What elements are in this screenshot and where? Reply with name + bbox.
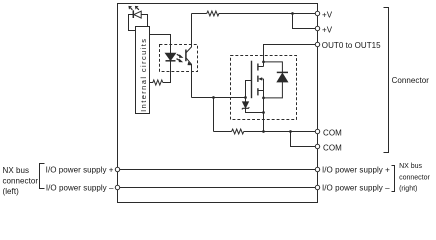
MOSFET body stub with arrow [261,78,264,80]
svg-text:NX bus: NX bus [3,166,30,175]
node source-TVS junction [262,97,265,100]
optocoupler light arrow 2 [177,59,180,61]
LED indicator loop wire [129,15,148,31]
wire internal circuits to optocoupler anode [150,35,171,54]
terminal COM 2 [315,144,319,148]
internal circuits box [136,27,150,114]
terminal IO+ left [115,167,119,171]
optocoupler LED cathode bar [166,60,176,62]
wire I/O power bus - [118,187,318,189]
LED indicator emission arrow 2 [137,8,139,10]
resistor R-com [232,129,244,134]
node COM junction 1 [262,130,265,133]
terminal OUT [315,42,319,46]
MOSFET channel segments [257,64,259,71]
svg-text:I/O power supply +: I/O power supply + [322,165,390,174]
resistor R-pullup [207,11,219,16]
svg-text:Internal circuits: Internal circuits [139,38,148,112]
MOSFET gate lead [246,81,252,98]
phototransistor emitter lead [186,58,192,98]
TVS diode D1 [277,71,288,73]
svg-text:(right): (right) [399,185,417,192]
wire emitter to gate node [192,97,246,99]
MOSFET source stub [258,90,264,92]
zener diode ZD [245,98,247,102]
svg-text:COM: COM [323,128,342,137]
LED indicator emission arrow 1 [131,8,133,10]
optocoupler LED triangle [166,53,176,60]
wire resistor to LED cathode [163,61,171,83]
wire drain to TVS cathode [264,62,283,73]
terminal IO- left [115,185,119,189]
phototransistor base bar [185,50,187,62]
wire zener anode to source rail [246,108,264,112]
bracket NX bus left [40,164,45,189]
node source-zener junction [262,111,265,114]
LED indicator diode triangle [134,11,141,18]
svg-text:connector: connector [3,176,39,185]
wire branch to COM2 [291,132,316,147]
svg-text:I/O power supply +: I/O power supply + [46,165,114,174]
wire source vertical [263,79,265,132]
svg-text:OUT0 to OUT15: OUT0 to OUT15 [322,41,381,50]
terminal IO+ right [315,167,319,171]
svg-text:NX bus: NX bus [399,163,422,170]
node emitter junction [212,96,215,99]
wire collector to +V [192,13,207,15]
svg-text:Connector: Connector [392,76,430,85]
wire COM rail to terminal [244,131,316,133]
wire I/O power bus + [118,169,318,171]
optocoupler dashed box [160,45,198,72]
resistor R-led (opto LED series) [150,80,163,85]
bracket NX bus right [392,166,395,192]
LED indicator cathode bar [132,10,134,18]
wire emitter drop to COM row [213,98,215,132]
terminal +V 2 [315,26,319,30]
wire TVS anode to source [264,82,283,98]
wire branch to +V2 [293,14,316,29]
wire drain stub [258,66,264,68]
phototransistor collector lead [186,14,192,53]
phototransistor emitter arrow [188,62,193,66]
optocoupler light arrow 1 [177,54,180,56]
svg-text:+V: +V [322,26,333,35]
COM rail [214,131,232,133]
svg-text:+V: +V [322,11,333,20]
MOSFET dashed box [231,56,297,120]
node gate-zener junction [244,96,247,99]
svg-text:connector: connector [399,174,430,181]
svg-text:I/O power supply –: I/O power supply – [46,183,114,192]
terminal +V 1 [315,11,319,15]
svg-text:I/O power supply –: I/O power supply – [322,183,390,192]
node junction +V [291,12,294,15]
MOSFET gate bar Q1 [251,61,253,98]
node drain junction [262,61,265,64]
svg-text:COM: COM [323,143,342,152]
svg-text:(left): (left) [3,187,20,196]
terminal COM 1 [315,129,319,133]
terminal IO- right [315,185,319,189]
wire OUT terminal to drain [264,45,316,67]
unit outline box [118,4,318,203]
node COM junction 2 [289,130,292,133]
wire resistor to +V terminal [219,13,316,15]
bracket connector right [384,8,389,153]
